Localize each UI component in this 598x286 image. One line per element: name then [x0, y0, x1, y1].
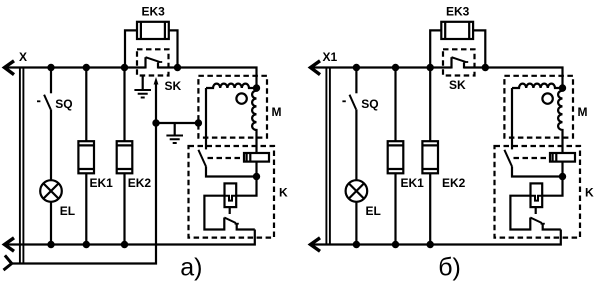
relay K dashed enclosure [495, 146, 581, 238]
svg-text:SK: SK [449, 78, 466, 92]
contact K.1 (top, start contact) [504, 150, 562, 177]
EK3 label [446, 4, 470, 18]
wire coil bottom stub [229, 207, 231, 214]
svg-text:EL: EL [60, 204, 75, 218]
wire junction down to coil right side [236, 177, 256, 196]
connector X arrow (top left) [5, 61, 15, 75]
svg-text:EL: EL [366, 204, 381, 218]
EK1 label [401, 176, 425, 190]
switch SQ (door switch) [37, 68, 51, 181]
caption b) [438, 253, 461, 281]
motor M dashed enclosure [198, 76, 267, 138]
connector fork (bottom left, lower bus) [4, 255, 12, 270]
node X label [19, 50, 27, 64]
connector X1 arrow (top left) [311, 61, 321, 75]
wire motor main winding down to relay [205, 88, 207, 149]
connector arrow (bottom bus) [5, 238, 15, 252]
svg-text:EK3: EK3 [142, 4, 166, 18]
mechanical link dashed to heater [514, 157, 551, 159]
wire PE conductor with up arrow [12, 77, 159, 264]
connector arrow (bottom bus) [311, 238, 321, 252]
motor M dashed enclosure [504, 76, 573, 138]
node dots bottom bus [353, 241, 434, 248]
EK2 label [442, 176, 466, 190]
svg-text:K: K [279, 186, 288, 200]
svg-text:б): б) [438, 253, 461, 281]
node dot motor winding junction [559, 84, 566, 91]
EK2 label [128, 176, 152, 190]
wire bottom bus (right circuit) [311, 230, 561, 245]
wire coil left side loop [510, 196, 530, 230]
caption a) [180, 253, 202, 281]
svg-text:EK1: EK1 [401, 176, 425, 190]
wire EK1 top and bottom [85, 68, 87, 245]
M label [578, 105, 588, 119]
wire coil bottom stub [535, 207, 537, 214]
wire EK3 left leg [430, 30, 441, 67]
EK3 label [142, 4, 166, 18]
motor internal circle [542, 93, 552, 103]
node X1 label [323, 50, 338, 64]
wire EK1 top and bottom [394, 68, 396, 245]
svg-text:M: M [578, 105, 588, 119]
heater EK2 (vertical rectangle with end bars) [117, 141, 133, 173]
SK dashed enclosure [137, 49, 169, 75]
node dot relay junction [253, 173, 260, 180]
SQ label [55, 97, 72, 111]
heater KK (thermal element in relay) [550, 153, 575, 162]
heater EK2 (vertical rectangle with end bars) [422, 141, 438, 173]
relay K dashed enclosure [189, 146, 275, 238]
svg-text:SK: SK [165, 79, 182, 93]
lamp EL (circle with cross) [346, 180, 368, 202]
node dot relay junction [559, 173, 566, 180]
SK dashed enclosure [443, 49, 475, 75]
wire bottom bus (left circuit) [5, 230, 255, 245]
svg-text:SQ: SQ [361, 97, 378, 111]
heater KK (thermal element in relay) [244, 153, 269, 162]
wire EK3 right leg [169, 30, 178, 67]
EL label [60, 204, 75, 218]
heater EK3 (rectangle with end bars) [137, 22, 169, 39]
contact K.2 (bottom) [224, 218, 255, 230]
heater EK1 (vertical rectangle with end bars) [388, 141, 404, 173]
motor M winding (horizontal coil) [512, 84, 563, 88]
svg-text:EK3: EK3 [446, 4, 470, 18]
wire top bus right segment to motor [158, 68, 257, 89]
wire ground link to motor case [156, 122, 198, 124]
ground (on link under motor) [166, 123, 183, 143]
wire EK3 right leg [473, 30, 485, 67]
EK1 label [90, 176, 114, 190]
K label [279, 186, 288, 200]
EL label [366, 204, 381, 218]
svg-text:а): а) [180, 253, 202, 281]
switch SQ (door switch) [342, 68, 356, 181]
svg-text:EK2: EK2 [442, 176, 466, 190]
wire top bus right segment to motor [464, 68, 563, 89]
lamp EL (circle with cross) [40, 180, 62, 202]
wire top bus left segment [311, 66, 452, 68]
motor M winding (horizontal coil) [206, 84, 257, 88]
wire EK2 top and bottom [123, 68, 125, 245]
switch SK (thermal contact in dashed box) [452, 57, 469, 68]
node junction dots on top bus [353, 64, 489, 71]
svg-text:SQ: SQ [55, 97, 72, 111]
svg-text:EK2: EK2 [128, 176, 152, 190]
wire heater bottom to junction [255, 162, 257, 177]
K label [585, 186, 594, 200]
svg-text:X1: X1 [323, 50, 338, 64]
SK label [165, 79, 182, 93]
svg-text:EK1: EK1 [90, 176, 114, 190]
contact K.2 (bottom) [530, 218, 561, 230]
mechanical link dashed to heater [208, 157, 245, 159]
contact K.1 (top, start contact) [198, 150, 256, 177]
wire top bus left segment [5, 66, 146, 68]
node dot PE junction [152, 119, 159, 126]
motor internal circle [236, 93, 246, 103]
relay coil K (rectangle with notch) [531, 183, 543, 207]
wire coil left side loop [204, 196, 224, 230]
bus X1 double vertical lines [326, 68, 330, 245]
SQ label [361, 97, 378, 111]
wire EK2 top and bottom [429, 68, 431, 245]
wire junction down to coil right side [542, 177, 562, 196]
node dot motor case [195, 119, 202, 126]
heater EK3 (rectangle with end bars) [441, 22, 473, 39]
heater EK1 (vertical rectangle with end bars) [78, 141, 94, 173]
svg-text:M: M [272, 105, 282, 119]
M label [272, 105, 282, 119]
ground (below SK box) [134, 76, 151, 98]
relay coil K (rectangle with notch) [225, 183, 237, 207]
wire EK3 left leg [125, 30, 137, 67]
wire heater bottom to junction [561, 162, 563, 177]
wire lamp to bottom bus [50, 202, 52, 245]
wire lamp to bottom bus [355, 202, 357, 245]
SK label [449, 78, 466, 92]
motor M winding (vertical coil) [252, 88, 256, 153]
bus X double vertical lines [20, 68, 24, 264]
svg-text:K: K [585, 186, 594, 200]
node dots bottom bus [47, 241, 128, 248]
node dot motor winding junction [253, 84, 260, 91]
svg-text:X: X [19, 50, 27, 64]
wire motor main winding down to relay [511, 88, 513, 149]
node junction dots on top bus [47, 64, 181, 71]
switch SK (thermal contact in dashed box) [146, 57, 163, 68]
motor M winding (vertical coil) [558, 88, 562, 153]
